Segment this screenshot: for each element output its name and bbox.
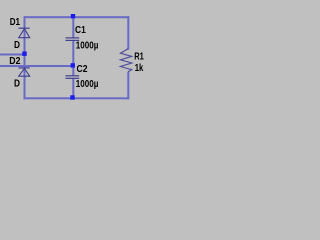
svg-text:D: D [14,40,20,51]
svg-text:C2: C2 [77,64,88,75]
svg-text:1000µ: 1000µ [76,41,99,52]
svg-text:D: D [14,79,20,90]
svg-text:1k: 1k [135,63,144,74]
svg-text:D1: D1 [10,17,21,28]
svg-text:1000µ: 1000µ [76,79,99,90]
svg-text:R1: R1 [134,51,144,62]
svg-text:C1: C1 [75,25,86,36]
svg-text:D2: D2 [9,56,21,67]
